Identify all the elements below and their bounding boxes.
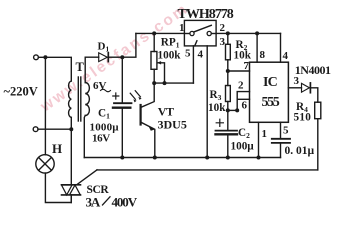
wire branch to 555 pin 6	[237, 98, 249, 100]
top rail right of TWH8778	[216, 32, 280, 34]
wire R4 bottom to gate rail	[317, 119, 319, 170]
wire diode to R4	[310, 88, 317, 102]
svg-text:TWH8778: TWH8778	[178, 7, 234, 22]
capacitor C3	[272, 138, 290, 140]
wire node A to transformer primary top	[45, 57, 71, 81]
lamp H	[36, 155, 54, 173]
junction dot branch	[235, 108, 239, 112]
junction dot R2 bottom	[226, 69, 230, 73]
wire terminal2 to primary bottom node	[38, 128, 71, 130]
wire D1 cathode to node C	[108, 56, 122, 58]
svg-text:R3: R3	[210, 89, 222, 102]
svg-text:8: 8	[260, 49, 266, 61]
svg-text:4: 4	[283, 50, 289, 62]
svg-text:3A: 3A	[86, 194, 101, 209]
svg-text:16V: 16V	[92, 133, 110, 145]
transformer T primary coil	[69, 81, 72, 117]
svg-text:7: 7	[244, 60, 250, 72]
svg-text:3DU5: 3DU5	[158, 117, 187, 131]
junction dot R2 top	[226, 31, 230, 35]
svg-text:IC: IC	[263, 75, 278, 90]
wire branch to 555 pin 2	[237, 92, 249, 111]
svg-text:2: 2	[220, 22, 226, 34]
wire 555 pin 5 to C3	[280, 122, 282, 138]
svg-text:100k: 100k	[158, 49, 182, 61]
node A junction dot	[43, 55, 47, 59]
svg-text:C1: C1	[98, 108, 110, 121]
capacitor C1	[121, 57, 123, 102]
wire 555 pin 1 to ground	[258, 122, 260, 157]
wire primary bottom to SCR anode	[70, 117, 72, 184]
junction dot RP1 top	[152, 31, 156, 35]
svg-text:400V: 400V	[112, 194, 138, 209]
top rail	[136, 32, 185, 34]
diode D1	[99, 53, 108, 62]
junction dot pin4 ground	[205, 156, 209, 160]
RP1 wiper	[158, 63, 164, 83]
svg-text:510: 510	[294, 111, 312, 123]
svg-text:1: 1	[262, 128, 268, 140]
junction dot pin1 ground	[257, 156, 261, 160]
thyristor SCR	[62, 184, 81, 186]
light arrow 2	[135, 91, 140, 97]
light arrow 1	[130, 93, 135, 99]
resistor R2	[227, 33, 229, 44]
wire secondary bottom to ground rail	[83, 116, 86, 158]
junction dot RP1 bottom	[152, 81, 156, 85]
svg-text:3: 3	[220, 36, 226, 48]
wire secondary top to D1 anode	[85, 57, 99, 82]
svg-text:0. 01µ: 0. 01µ	[285, 145, 315, 157]
capacitor C2	[227, 110, 229, 130]
gate rail wire	[97, 169, 318, 171]
SCR gate lead	[77, 170, 97, 184]
wire 555 pin 3	[288, 87, 301, 89]
junction dot C2 ground	[226, 156, 230, 160]
transformer core	[77, 77, 79, 121]
svg-text:1000µ: 1000µ	[90, 121, 120, 133]
svg-text:4: 4	[198, 49, 204, 61]
svg-text:1N4001: 1N4001	[295, 63, 331, 77]
svg-text:6: 6	[242, 100, 248, 112]
transformer T secondary coil	[85, 83, 89, 116]
svg-text:1: 1	[179, 22, 185, 34]
IC 555 box	[250, 62, 289, 122]
wire TWH pin 5	[192, 46, 194, 83]
node B junction dot	[69, 127, 73, 131]
wire R3 bottom to pins 2,6 branch	[228, 109, 237, 111]
wire 555 pin 8	[256, 33, 258, 62]
junction dot R3 bottom	[226, 108, 230, 112]
svg-text:T: T	[76, 60, 85, 74]
AC terminal 2 (bottom)	[33, 127, 38, 132]
phototransistor VT	[140, 105, 142, 125]
wire rail corner down to 555 pin 4	[280, 33, 282, 62]
svg-text:100µ: 100µ	[231, 140, 255, 152]
diode 1N4001	[302, 83, 310, 92]
svg-text:D1: D1	[98, 41, 110, 54]
switch contacts inside TWH8778	[184, 33, 189, 35]
wire TWH pin 4 to ground rail	[206, 46, 208, 158]
potentiometer RP1	[153, 33, 155, 51]
svg-text:10k: 10k	[208, 102, 226, 114]
wire lamp bottom to SCR cathode	[45, 173, 71, 202]
svg-text:555: 555	[262, 95, 280, 110]
wire terminal1 to node	[38, 56, 43, 58]
junction dot C1 ground	[120, 156, 124, 160]
ground rail	[84, 157, 280, 159]
resistor R3	[227, 71, 229, 86]
resistor R4	[315, 102, 321, 119]
node C junction dot	[120, 55, 124, 59]
wire to 555 pin 7	[228, 70, 250, 72]
svg-text:2: 2	[238, 80, 244, 92]
junction dot wiper bottom	[163, 81, 167, 85]
junction dot VT emitter ground	[153, 156, 157, 160]
IC TWH8778 box	[184, 20, 216, 46]
svg-text:5: 5	[185, 48, 191, 60]
svg-text:C2: C2	[238, 127, 250, 140]
wire node RP1-bottom to pin5	[154, 82, 193, 84]
svg-text:RP1: RP1	[161, 37, 180, 50]
AC terminal 1 (top)	[34, 55, 39, 60]
junction dot pin8	[255, 31, 259, 35]
svg-text:5: 5	[283, 125, 289, 137]
wire node C up to top rail	[122, 33, 136, 57]
wire node A down to lamp	[44, 57, 46, 155]
svg-text:H: H	[52, 141, 62, 156]
svg-text:~220V: ~220V	[4, 85, 38, 99]
